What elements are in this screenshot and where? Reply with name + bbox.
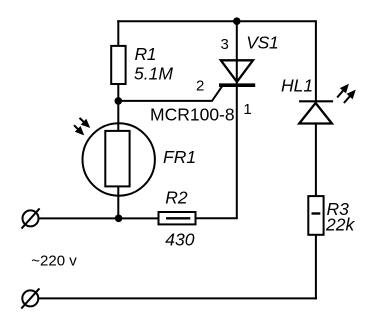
FR1 light arrow 1 bbox=[77, 115, 91, 129]
wire R2 to cathode bbox=[196, 217, 238, 219]
wire HL1 top drop bbox=[315, 20, 317, 101]
svg-text:VS1: VS1 bbox=[246, 32, 278, 52]
svg-text:430: 430 bbox=[165, 229, 194, 249]
thyristor VS1 bbox=[219, 60, 255, 85]
junction dot top bus bbox=[233, 17, 241, 25]
wire R1 to gate junction bbox=[117, 84, 119, 101]
svg-text:FR1: FR1 bbox=[163, 147, 196, 167]
wire FR1 vertical bbox=[117, 101, 119, 218]
svg-text:~220 v: ~220 v bbox=[31, 252, 77, 269]
svg-text:22k: 22k bbox=[325, 215, 355, 235]
svg-text:1: 1 bbox=[243, 101, 251, 118]
HL1 light arrow 1 bbox=[335, 83, 351, 100]
terminal X1 bbox=[22, 208, 40, 228]
FR1 light arrow 2 bbox=[72, 123, 86, 137]
wire R3 to bottom bus bbox=[315, 235, 317, 300]
LED HL1 bbox=[299, 101, 333, 123]
svg-text:R1: R1 bbox=[135, 44, 157, 64]
svg-text:HL1: HL1 bbox=[281, 75, 313, 95]
HL1 light arrow 2 bbox=[341, 88, 357, 105]
resistor R1 bbox=[111, 46, 125, 84]
junction dot gate bbox=[115, 97, 123, 105]
junction dot bottom left bbox=[115, 215, 123, 223]
svg-text:2: 2 bbox=[196, 77, 204, 94]
svg-text:MCR100-8: MCR100-8 bbox=[150, 104, 235, 124]
photoresistor FR1 bbox=[83, 123, 155, 195]
wire HL1 to R3 bbox=[315, 124, 317, 198]
terminal X2 bbox=[21, 288, 39, 308]
wire anode VS1 vertical bbox=[236, 20, 238, 218]
wire R1 top stub bbox=[117, 20, 119, 46]
wire bottom bus bbox=[39, 297, 317, 299]
wire gate bbox=[118, 86, 222, 101]
resistor R3 bbox=[308, 196, 323, 235]
svg-text:5.1M: 5.1M bbox=[134, 64, 173, 84]
wire top bus bbox=[117, 20, 316, 22]
svg-text:3: 3 bbox=[221, 36, 229, 53]
svg-text:R2: R2 bbox=[165, 188, 188, 208]
resistor R2 bbox=[159, 212, 196, 224]
wire left input bbox=[39, 217, 160, 219]
